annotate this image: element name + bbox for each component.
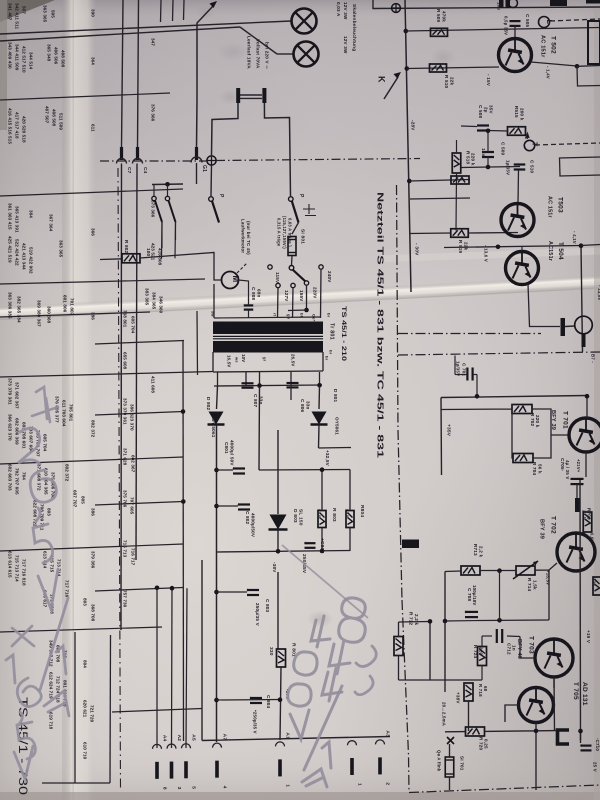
cap C506 block xyxy=(499,0,510,8)
svg-text:Si 801: Si 801 xyxy=(299,229,305,244)
svg-text:br: br xyxy=(326,313,331,318)
wire C505 to base xyxy=(514,26,516,38)
svg-text:16,5V: 16,5V xyxy=(227,355,232,367)
mains connector pin left xyxy=(236,88,240,103)
svg-text:3: 3 xyxy=(176,787,182,790)
wire primary bus xyxy=(214,317,321,318)
wire C804 row xyxy=(217,699,281,702)
svg-text:757 730: 757 730 xyxy=(123,590,128,608)
capacitor C801 4000u/50V xyxy=(230,467,245,474)
capacitor C804 250u/35V xyxy=(247,697,262,704)
rectifier bus wire xyxy=(214,385,322,386)
svg-text:804: 804 xyxy=(83,660,88,668)
svg-text:386 623 370: 386 623 370 xyxy=(130,404,135,431)
wire from S1 blade b xyxy=(175,222,177,240)
resistor R704 56k xyxy=(513,454,533,463)
junction T503 em xyxy=(496,245,501,250)
svg-text:br: br xyxy=(328,350,333,355)
wire C508 to R515 xyxy=(489,130,508,133)
svg-text:707 605: 707 605 xyxy=(130,497,135,515)
svg-text:ws: ws xyxy=(234,356,239,363)
svg-text:+: + xyxy=(578,744,584,747)
rail +19V xyxy=(579,480,582,740)
module boundary vertical (dash-dot) xyxy=(397,185,410,792)
svg-text:AC151r: AC151r xyxy=(547,241,553,262)
svg-text:- 15V: - 15V xyxy=(486,74,491,87)
diode D803 SL150 xyxy=(269,515,288,530)
svg-text:366 623 370: 366 623 370 xyxy=(8,414,13,441)
svg-text:0,315 A träge: 0,315 A träge xyxy=(276,218,281,247)
transistor T502 AC151r xyxy=(499,39,532,72)
junction C509 R515 xyxy=(486,129,491,134)
box top-right edge xyxy=(588,21,600,64)
junction ladder b xyxy=(181,499,186,504)
svg-text:417 517 418: 417 517 418 xyxy=(15,112,20,139)
wire below G1 xyxy=(196,163,198,184)
junction C802 top xyxy=(214,504,219,509)
wire C509 bottom xyxy=(487,157,489,167)
svg-text:4µ / 35 V: 4µ / 35 V xyxy=(565,460,570,479)
junction T705 em xyxy=(534,729,539,734)
wire to C801 xyxy=(217,469,234,471)
wire C701 down xyxy=(476,375,478,397)
svg-text:607 707: 607 707 xyxy=(73,490,78,508)
svg-text:AD 131: AD 131 xyxy=(581,682,588,706)
junction C804 right xyxy=(278,697,283,702)
wire tap D down xyxy=(290,386,292,400)
svg-text:G1: G1 xyxy=(201,165,207,172)
switch P contact 1 xyxy=(209,197,214,202)
wire y167 row xyxy=(462,167,521,168)
svg-text:601 806: 601 806 xyxy=(63,295,68,313)
wire R712 top xyxy=(398,622,400,637)
junction y167 xyxy=(486,165,491,170)
connector pin C4 xyxy=(136,147,139,160)
svg-text:+21V+: +21V+ xyxy=(576,459,581,473)
wire D803 top xyxy=(277,430,279,514)
secondary tap wire A xyxy=(217,372,219,386)
svg-text:220V: 220V xyxy=(312,287,317,299)
svg-text:rt: rt xyxy=(272,313,277,317)
wire motor to C808 xyxy=(239,280,249,300)
component stub top-right a xyxy=(550,0,567,6)
junction R712 top node xyxy=(428,619,433,624)
resistor R718 68 xyxy=(464,683,473,701)
connector stub A4 xyxy=(153,744,162,749)
long vertical supply line xyxy=(405,0,411,292)
svg-text:510: 510 xyxy=(315,509,321,518)
capacitor C805 250/45V xyxy=(302,542,316,548)
connector stub A7 xyxy=(213,743,222,747)
svg-text:R709: R709 xyxy=(586,508,591,520)
svg-text:R 714: R 714 xyxy=(527,578,532,592)
wire A2 feed xyxy=(171,588,174,748)
rail +35V row xyxy=(441,396,587,398)
svg-text:511 509: 511 509 xyxy=(59,113,64,130)
junction neg rail 1 xyxy=(276,549,281,554)
svg-text:220: 220 xyxy=(592,578,597,586)
wire to C802 xyxy=(217,505,239,507)
wire R712 row top xyxy=(399,621,431,624)
svg-text:384 365: 384 365 xyxy=(152,292,157,310)
wire chassis to P xyxy=(210,165,213,196)
wire to lamp 1 xyxy=(0,21,291,34)
lamp La1 Skalenbeleuchtung xyxy=(292,9,317,34)
svg-text:C4: C4 xyxy=(142,167,148,174)
capacitor C509 15n xyxy=(482,152,494,157)
svg-text:717 716: 717 716 xyxy=(65,580,70,598)
wire x499 link xyxy=(499,571,501,621)
circled T sensor top xyxy=(509,0,518,8)
socket bump C7 xyxy=(117,159,127,164)
svg-text:bei 220 V ∼: bei 220 V ∼ xyxy=(264,42,269,69)
resistor R724 220 xyxy=(478,647,487,666)
svg-text:220 k: 220 k xyxy=(535,415,540,428)
svg-text:382 365 384: 382 365 384 xyxy=(17,296,22,323)
svg-text:2µ: 2µ xyxy=(483,107,488,113)
secondary tap wire D xyxy=(290,372,292,386)
svg-text:5: 5 xyxy=(190,786,196,789)
transformer Tr801 core lines xyxy=(213,336,323,338)
secondary tap wire C xyxy=(259,372,261,386)
svg-text:22k: 22k xyxy=(449,77,454,86)
capacitor C508 2u xyxy=(477,126,489,131)
svg-text:R 802: R 802 xyxy=(124,240,129,254)
svg-text:1n: 1n xyxy=(511,645,516,651)
wire C708 right row xyxy=(480,619,549,622)
ladder wire y412 xyxy=(95,412,183,416)
resistor R702 220k xyxy=(512,405,532,414)
svg-text:R 509: R 509 xyxy=(436,9,441,23)
switch S1 center tap xyxy=(165,182,170,187)
svg-text:366: 366 xyxy=(91,228,96,236)
svg-text:364: 364 xyxy=(91,57,96,65)
boundary dash-dot right b xyxy=(398,352,600,355)
tap contact 220V xyxy=(304,281,308,285)
resistor R801 330 xyxy=(277,649,286,667)
svg-text:407 507: 407 507 xyxy=(45,106,50,124)
svg-text:507: 507 xyxy=(22,6,27,14)
junction A2 feed xyxy=(170,586,175,591)
wire C705 down xyxy=(576,484,578,500)
socket bump G1 xyxy=(191,157,202,163)
socket bump C4 xyxy=(133,159,143,164)
wire G1 feed xyxy=(196,100,199,148)
svg-text:22k: 22k xyxy=(463,242,468,251)
svg-text:TS 45/1 - 210: TS 45/1 - 210 xyxy=(340,306,346,362)
svg-text:R 724: R 724 xyxy=(473,645,478,659)
capacitor C803 250u/35V xyxy=(244,589,259,596)
svg-text:R 702: R 702 xyxy=(530,413,535,427)
svg-text:D 801: D 801 xyxy=(333,389,338,403)
svg-text:TS 45/1 - 730: TS 45/1 - 730 xyxy=(16,697,28,795)
wire R517 row xyxy=(409,180,470,182)
svg-text:Tr 801: Tr 801 xyxy=(328,323,334,340)
svg-text:505: 505 xyxy=(51,10,56,18)
svg-text:P: P xyxy=(298,194,304,198)
svg-text:+32,5V: +32,5V xyxy=(325,450,330,467)
wire C712 left xyxy=(482,635,492,637)
svg-text:sw: sw xyxy=(210,311,215,317)
wire secondary right down xyxy=(318,386,321,409)
resistor R519 22k xyxy=(451,229,469,238)
wire tap155 down xyxy=(292,288,295,319)
wire plug-left to chassis pin xyxy=(212,103,239,155)
svg-text:610 604 385: 610 604 385 xyxy=(44,468,49,495)
svg-text:BFY 39: BFY 39 xyxy=(550,410,556,430)
wire C808 top xyxy=(248,298,250,305)
svg-text:20…2,5mA: 20…2,5mA xyxy=(442,702,447,727)
wire R801 bottom xyxy=(280,667,281,740)
svg-text:416 415 516 515: 416 415 516 515 xyxy=(8,108,13,144)
svg-text:2: 2 xyxy=(384,782,390,785)
svg-text:4000µ/ 50V: 4000µ/ 50V xyxy=(229,440,234,466)
junction C804 left xyxy=(214,698,219,703)
svg-text:363 365: 363 365 xyxy=(59,240,64,258)
svg-text:715 713 714: 715 713 714 xyxy=(15,555,20,582)
svg-text:611 703 604: 611 703 604 xyxy=(62,400,67,427)
svg-text:+38V: +38V xyxy=(455,692,460,704)
svg-text:C 808: C 808 xyxy=(251,287,256,301)
svg-text:342 411 511: 342 411 511 xyxy=(15,3,20,29)
ladder wire y588 xyxy=(95,588,183,592)
svg-text:A4: A4 xyxy=(161,735,167,742)
svg-text:360 368: 360 368 xyxy=(47,306,52,324)
handwriting 1+ mark xyxy=(32,387,58,422)
svg-text:bl: bl xyxy=(299,313,304,317)
transformer secondary frame right xyxy=(322,352,324,371)
svg-text:gn: gn xyxy=(286,314,291,320)
svg-text:C 803: C 803 xyxy=(265,599,270,613)
svg-text:+: + xyxy=(462,611,468,614)
junction T502 emitter node xyxy=(575,64,580,69)
svg-text:470k: 470k xyxy=(441,11,446,22)
svg-text:620 621: 620 621 xyxy=(83,700,88,718)
wires T703 T705 xyxy=(399,622,581,791)
junction R517 row xyxy=(407,179,412,184)
junction C801 top xyxy=(214,468,219,473)
wire from S1 blade a xyxy=(161,222,163,248)
svg-text:12V 3W: 12V 3W xyxy=(343,36,348,54)
junction ladder a xyxy=(181,409,186,414)
svg-text:T 702: T 702 xyxy=(549,516,556,534)
svg-text:371 608 372: 371 608 372 xyxy=(37,464,42,491)
svg-text:BFY 40: BFY 40 xyxy=(516,639,522,659)
svg-text:1: 1 xyxy=(284,784,290,787)
svg-text:12V 3W: 12V 3W xyxy=(343,2,348,20)
svg-text:127V: 127V xyxy=(284,290,289,302)
rail x157 bottom xyxy=(156,588,158,748)
svg-text:379 386: 379 386 xyxy=(91,551,96,569)
capacitor C705 4u/35V xyxy=(571,479,584,484)
handwriting diagonal stroke center xyxy=(282,545,368,618)
svg-text:Leerlauf 18VA: Leerlauf 18VA xyxy=(246,36,251,69)
svg-text:A3: A3 xyxy=(384,730,390,737)
svg-text:C 806: C 806 xyxy=(300,399,305,413)
wire T503-T504 row xyxy=(444,246,581,248)
svg-text:1: 1 xyxy=(356,783,362,786)
wire R509 row xyxy=(406,28,600,32)
svg-text:Ge*: Ge* xyxy=(311,314,316,322)
svg-text:4000µ/50V: 4000µ/50V xyxy=(250,513,255,538)
wire corner y199 xyxy=(410,198,470,199)
svg-text:375 706: 375 706 xyxy=(123,490,128,508)
svg-text:702 707 605: 702 707 605 xyxy=(15,468,20,495)
svg-text:655 608: 655 608 xyxy=(123,352,128,370)
wire secondary left down xyxy=(217,386,218,409)
resistor R510 22k xyxy=(430,64,447,72)
svg-text:2,2 k: 2,2 k xyxy=(414,614,419,625)
transistor T705 AD131 xyxy=(519,688,554,723)
transformer secondary frame left xyxy=(212,352,214,372)
diode D801 OY5061 xyxy=(311,412,328,425)
connector stub A2 xyxy=(167,744,176,749)
svg-text:R 518: R 518 xyxy=(465,151,470,165)
wire C510 down to T503 xyxy=(517,170,520,203)
svg-text:68: 68 xyxy=(483,686,488,692)
wire R802 to motor xyxy=(140,253,222,281)
switch P blade 2 xyxy=(292,201,299,223)
wire D801 to +32.5 rail xyxy=(319,447,352,450)
svg-text:OY5061: OY5061 xyxy=(334,417,339,435)
svg-text:C 508: C 508 xyxy=(478,105,483,119)
wire C508 left xyxy=(461,125,477,128)
wire R804 bottom xyxy=(349,528,351,552)
resistor R712 2,2k xyxy=(394,637,403,656)
wire R713 left leg xyxy=(444,572,446,681)
tap contact 127V xyxy=(276,283,280,287)
svg-text:D 803: D 803 xyxy=(292,509,298,523)
black mark right mid xyxy=(575,498,580,512)
off-page arrow to K (top) xyxy=(197,1,217,100)
switch S1 contact b xyxy=(165,196,169,200)
svg-text:701 807: 701 807 xyxy=(70,298,75,316)
wire S1 blade-a down xyxy=(161,222,164,259)
off-page arrow K xyxy=(384,72,401,99)
emitter terminal bracket xyxy=(558,730,570,744)
svg-text:Skalenbeleuchtung: Skalenbeleuchtung xyxy=(351,4,357,51)
transistor T702 BFY39 xyxy=(557,533,595,571)
svg-text:365 413 391: 365 413 391 xyxy=(15,206,20,233)
wire C701 stub xyxy=(454,356,456,375)
svg-text:A5: A5 xyxy=(190,734,196,741)
svg-text:R804: R804 xyxy=(359,505,365,517)
resistor R720 0,25 xyxy=(466,727,485,736)
wire D803 bottom xyxy=(277,530,279,551)
svg-text:68n: 68n xyxy=(256,289,261,298)
capacitor C708 100u/18V xyxy=(462,611,478,618)
svg-text:Laufwerkmotor: Laufwerkmotor xyxy=(241,219,246,253)
switch S1 blade b xyxy=(169,201,176,223)
svg-text:605 704: 605 704 xyxy=(43,434,48,452)
wire exit right corner xyxy=(577,66,600,86)
wire to lamp 2a xyxy=(0,27,240,41)
svg-text:115V: 115V xyxy=(275,272,280,284)
top rail with corner xyxy=(373,0,600,9)
wire C808 bottom xyxy=(248,310,250,318)
motor switch dashed link xyxy=(237,263,247,273)
svg-text:+: + xyxy=(235,503,241,506)
wire C708 row xyxy=(445,620,480,623)
svg-text:C 509: C 509 xyxy=(500,142,505,156)
svg-text:363 365: 363 365 xyxy=(43,5,48,23)
wire T703 base xyxy=(520,637,535,659)
capacitor C807 33n xyxy=(242,383,254,387)
handwriting 844 xyxy=(322,598,365,701)
wire R802 row left xyxy=(100,258,122,261)
svg-text:C 708: C 708 xyxy=(467,588,472,602)
svg-text:R 712: R 712 xyxy=(408,612,413,626)
connector stub A5 xyxy=(182,744,191,749)
arrow R515 to sensor xyxy=(526,133,530,139)
svg-text:26,5V: 26,5V xyxy=(291,354,296,366)
svg-text:T 504: T 504 xyxy=(557,242,564,260)
connector stub extra xyxy=(348,741,357,746)
wire D801 down xyxy=(318,425,321,449)
svg-text:8: 8 xyxy=(161,787,167,790)
lamp La2 Skalenbeleuchtung xyxy=(294,42,319,67)
svg-text:AC 151r: AC 151r xyxy=(540,35,546,58)
svg-text:622 608 722: 622 608 722 xyxy=(33,500,38,527)
connector pin G1 xyxy=(195,147,198,160)
top edge stub 3 xyxy=(183,0,186,20)
capacitor C808 68n xyxy=(244,305,254,309)
top edge stub 2 xyxy=(172,0,175,21)
module boundary bottom (dash-dot) xyxy=(409,785,600,793)
svg-text:412 517 510: 412 517 510 xyxy=(22,46,27,73)
wire T701 collector up xyxy=(586,396,588,418)
svg-text:411 608: 411 608 xyxy=(151,376,156,393)
switch S1 pole-a stem xyxy=(153,185,155,197)
wire R713 R714 row xyxy=(445,563,557,620)
svg-text:+C805: +C805 xyxy=(319,538,325,553)
junction rect bus 1 xyxy=(257,383,262,388)
svg-text:BFY 39: BFY 39 xyxy=(539,519,545,539)
tap contact 115V xyxy=(268,265,272,269)
svg-text:390: 390 xyxy=(91,9,96,17)
fuse Si801 xyxy=(288,237,296,256)
junction R803 top xyxy=(320,467,325,472)
wire tap220 down xyxy=(306,285,308,310)
wire R519 right xyxy=(468,232,518,235)
svg-text:802 372: 802 372 xyxy=(65,464,70,482)
mains connector bridge xyxy=(240,95,262,98)
svg-text:386: 386 xyxy=(91,312,96,320)
ladder wire y341 xyxy=(95,341,184,345)
wire plug-right to switch xyxy=(264,103,290,196)
phono connector symbol xyxy=(561,316,593,347)
svg-text:R 704: R 704 xyxy=(532,462,537,476)
svg-text:(115,127,155V:): (115,127,155V:) xyxy=(282,216,287,249)
rail +35V left leg xyxy=(440,398,443,476)
svg-text:613 614 615: 613 614 615 xyxy=(8,551,13,578)
resistor R713 2,2k xyxy=(461,566,480,575)
transistor T504 AC151r xyxy=(506,252,539,285)
svg-text:SL 150: SL 150 xyxy=(297,509,303,526)
svg-text:(nur bei TC 45): (nur bei TC 45) xyxy=(246,221,251,255)
svg-text:0,63 A träge ): 0,63 A träge ) xyxy=(287,218,292,247)
wire D802 down xyxy=(216,425,218,743)
svg-text:R 803: R 803 xyxy=(331,508,337,522)
svg-text:gr: gr xyxy=(262,357,267,362)
svg-text:22 k: 22 k xyxy=(581,510,586,520)
svg-text:602 367: 602 367 xyxy=(131,455,136,473)
wire R510 row xyxy=(407,67,499,69)
junction neg rail 2 xyxy=(320,549,325,554)
wire R702 R704 left link xyxy=(442,404,514,458)
svg-text:603 708 601: 603 708 601 xyxy=(22,422,27,449)
wire blade2 to fuse xyxy=(292,223,299,235)
